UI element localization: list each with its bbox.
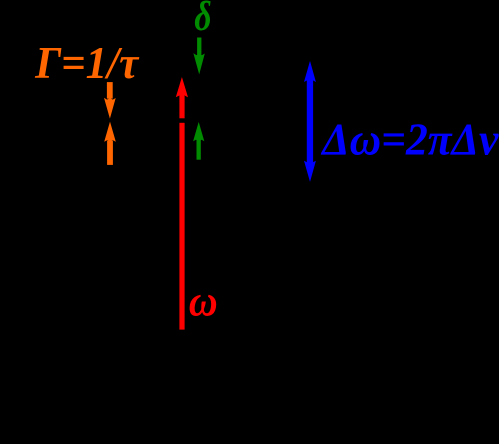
svg-text:ω: ω — [189, 278, 218, 326]
svg-text:Γ=1/τ: Γ=1/τ — [34, 37, 139, 88]
svg-text:δ: δ — [194, 0, 211, 40]
svg-text:Δω=2πΔν: Δω=2πΔν — [320, 114, 498, 165]
